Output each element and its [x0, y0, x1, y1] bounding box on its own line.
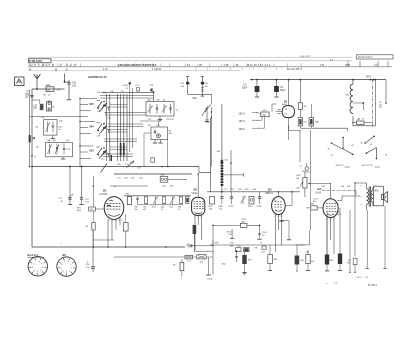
wire det down: [199, 167, 211, 192]
svg-text:C85: C85: [254, 248, 259, 250]
wire B3 top tap: [285, 205, 292, 207]
tube B1 stems: [107, 219, 109, 247]
wire osc link: [140, 121, 159, 127]
capacitor C1 50uF: [276, 80, 278, 86]
svg-text:1: 1: [194, 217, 196, 219]
svg-text:C29: C29: [296, 188, 301, 190]
svg-text:2: 2: [326, 219, 328, 221]
wire drop x367: [366, 210, 368, 268]
svg-text:12: 12: [126, 88, 129, 90]
svg-text:C78: C78: [149, 85, 154, 87]
svg-text:C90: C90: [86, 264, 91, 266]
resistor R48: [353, 258, 357, 264]
wire stage rail: [79, 99, 81, 167]
trimmer C38: [48, 145, 52, 155]
choke L70 3H: [32, 99, 40, 101]
svg-text:SK3 1/2 TF: SK3 1/2 TF: [362, 165, 374, 167]
resistor R9: [186, 197, 189, 204]
svg-text:3: 3: [37, 271, 39, 273]
coil box S60: [44, 120, 58, 136]
capacitor C71: [69, 167, 71, 198]
capacitor C46: [201, 77, 203, 95]
ferrite rod antenna S30: [221, 104, 223, 192]
coil box S60 ground: [52, 135, 54, 138]
revision flag box: [15, 77, 25, 86]
trimmer C41: [156, 104, 158, 114]
wire det bus: [207, 191, 300, 193]
wire IF bottoms: [138, 204, 184, 206]
svg-text:40: 40: [328, 149, 330, 151]
svg-text:OA: OA: [47, 88, 51, 91]
svg-text:40k: 40k: [209, 209, 213, 211]
svg-text:C41: C41: [97, 111, 102, 113]
wire stage feed 2: [80, 122, 95, 134]
wire SK2 drops: [211, 107, 213, 167]
svg-text:S30: S30: [217, 151, 221, 153]
wire af line: [309, 183, 331, 185]
resistor R36: [309, 118, 314, 126]
wire det bottom bus: [210, 244, 305, 246]
svg-text:C46: C46: [107, 118, 112, 120]
svg-text:C22 13k: C22 13k: [166, 119, 173, 121]
svg-text:1: 1: [71, 267, 73, 269]
title block row1 line: [51, 60, 352, 62]
svg-text:9: 9: [41, 264, 43, 266]
wire down left: [199, 118, 211, 173]
svg-text:B1: B1: [103, 189, 107, 193]
switch SK1 wafer: [331, 143, 341, 149]
wire grid drop: [92, 176, 94, 207]
svg-text:C20: C20: [156, 100, 161, 102]
svg-text:× ×: × ×: [334, 282, 338, 285]
resistor R45: [295, 256, 300, 265]
svg-text:R2: R2: [44, 95, 47, 97]
capacitor C162: [231, 192, 233, 197]
svg-text:4: 4: [361, 186, 362, 188]
svg-text:C51: C51: [101, 159, 106, 161]
svg-text:S45: S45: [89, 103, 94, 106]
wire B3 cathode jog: [281, 220, 289, 222]
svg-text:C80: C80: [253, 189, 258, 191]
node SK6: [305, 171, 310, 173]
svg-text:10n: 10n: [313, 201, 316, 203]
potentiometer R30: [303, 178, 307, 189]
wire bus segment: [110, 185, 148, 187]
wire stage feed 3: [80, 146, 93, 159]
svg-text:SK5: SK5: [366, 76, 371, 79]
svg-text:C79: C79: [238, 189, 243, 191]
wire top bus: [250, 79, 386, 81]
resistor R10 screen: [193, 225, 197, 234]
svg-text:UL41: UL41: [316, 191, 322, 194]
svg-text:R4: R4: [304, 106, 308, 108]
wire rail2: [29, 90, 31, 167]
svg-text:4: 4: [62, 270, 64, 272]
svg-text:519: 519: [181, 86, 185, 88]
svg-text:40k: 40k: [169, 133, 172, 135]
wire ladder bar extension: [311, 127, 347, 129]
svg-text:C162: C162: [229, 206, 235, 208]
svg-text:UF41: UF41: [192, 192, 199, 195]
speaker driver: [382, 195, 385, 200]
wire drop x327: [326, 212, 328, 255]
tuning gang cross wires: [100, 95, 154, 97]
svg-text:6: 6: [61, 264, 63, 266]
svg-text:1: 1: [109, 220, 111, 222]
svg-text:L40: L40: [225, 160, 229, 162]
svg-text:C1: C1: [280, 86, 284, 89]
wire stage feed 1: [80, 99, 97, 111]
svg-text:6: 6: [33, 264, 35, 266]
IF box ground: [159, 116, 161, 119]
svg-text:50: 50: [262, 235, 265, 237]
resistor R6: [92, 223, 95, 231]
connector P2: [160, 177, 168, 183]
svg-text:C55: C55: [97, 92, 102, 94]
mains dash-dot line: [371, 80, 373, 128]
svg-text:R43: R43: [248, 260, 253, 262]
trimmer C39: [55, 145, 59, 155]
svg-text:SK9: SK9: [215, 243, 220, 245]
svg-text:B 772L7: B 772L7: [368, 284, 378, 287]
svg-text:15 8 17 12 2 7: 15 8 17 12 2 7: [358, 57, 373, 59]
svg-text:3: 3: [115, 220, 117, 222]
svg-text:2: 2: [112, 220, 114, 222]
svg-text:152 V: 152 V: [239, 120, 246, 123]
tuning indicator arrow 2: [127, 161, 134, 167]
svg-text:C24: C24: [156, 125, 161, 127]
capacitor C2 50uF: [256, 80, 258, 86]
svg-text:n47: n47: [143, 209, 147, 211]
resistor R156: [231, 229, 233, 238]
resistor R46: [325, 255, 329, 265]
osc box S62: [46, 142, 73, 156]
svg-text:C38: C38: [47, 140, 52, 142]
svg-text:50p: 50p: [135, 209, 139, 211]
svg-text:UCH42: UCH42: [100, 193, 109, 196]
svg-text:R: R: [300, 166, 302, 168]
title block row2 underline: [28, 66, 392, 68]
svg-text:1k: 1k: [48, 95, 50, 97]
svg-text:2n: 2n: [161, 209, 163, 211]
svg-text:C59: C59: [137, 168, 142, 170]
shield bar on rail: [29, 135, 31, 142]
capacitor C64: [162, 197, 165, 204]
tube B4 stems: [326, 217, 328, 258]
capacitor C66b: [179, 197, 182, 204]
wire socket feed: [93, 239, 114, 241]
svg-text:C7: C7: [358, 119, 361, 121]
svg-text:2: 2: [275, 216, 277, 218]
svg-text:C68: C68: [117, 164, 122, 166]
wire mains bottom: [353, 125, 376, 127]
svg-text:L62: L62: [66, 140, 70, 142]
svg-text:4: 4: [34, 270, 36, 272]
capacitor C60: [137, 196, 139, 198]
svg-text:C84: C84: [306, 252, 311, 254]
svg-text:C77: C77: [224, 189, 229, 191]
svg-text:S46: S46: [147, 100, 151, 102]
wire drop R32: [310, 130, 312, 206]
svg-text:B3: B3: [268, 188, 272, 192]
svg-text:1k: 1k: [108, 132, 110, 134]
capacitor C31 1n5: [65, 81, 70, 83]
svg-text:UBC41: UBC41: [265, 192, 273, 195]
svg-text:SK2: SK2: [192, 97, 197, 100]
title block type box top right: [357, 55, 394, 59]
svg-text:TV: TV: [262, 113, 266, 117]
wire B4 grid return: [309, 230, 311, 245]
svg-text:3: 3: [66, 272, 68, 274]
resistor R8 cathode: [124, 223, 129, 232]
svg-text:R16: R16: [311, 261, 316, 263]
tube B2 envelope: [192, 197, 205, 215]
capacitor C45: [187, 77, 189, 95]
svg-text:7: 7: [333, 219, 335, 221]
svg-text:C35: C35: [59, 121, 64, 123]
svg-text:C23: C23: [261, 251, 266, 253]
tuning gang wire bundle: [106, 94, 108, 161]
node det junction: [221, 191, 223, 193]
svg-text:R19: R19: [231, 189, 236, 191]
wire left rail: [31, 89, 33, 247]
svg-text:1M: 1M: [90, 209, 93, 211]
svg-text:S65: S65: [130, 163, 134, 165]
capacitor C160: [221, 192, 223, 197]
svg-text:C75: C75: [117, 178, 122, 180]
svg-text:5000: 5000: [337, 214, 342, 216]
svg-text:C49: C49: [97, 136, 102, 138]
svg-text:8p: 8p: [105, 113, 108, 115]
svg-text:L70: L70: [33, 105, 38, 107]
tube B4 envelope: [323, 199, 338, 218]
svg-text:4 2: 4 2: [330, 59, 334, 61]
trimmer S42: [170, 197, 175, 205]
wire heater bus 2: [114, 256, 185, 258]
svg-text:5kΩ: 5kΩ: [222, 264, 226, 266]
resistor R37 4R7: [180, 262, 184, 270]
transformer tap wire: [353, 102, 363, 104]
svg-text:3: 3: [198, 217, 200, 219]
power ladder bottom bar: [299, 126, 301, 128]
resistor R47: [338, 254, 342, 265]
trimmer C43: [170, 104, 172, 114]
junction box on AGC bus: [151, 158, 155, 162]
output transformer S51 primary: [367, 189, 369, 193]
oscillator ground leads: [154, 140, 156, 143]
resistor R35: [298, 118, 302, 126]
title block right cells: [347, 61, 349, 67]
svg-text:9: 9: [70, 264, 72, 266]
svg-text:C83: C83: [230, 243, 235, 245]
svg-text:C2: C2: [244, 84, 248, 87]
svg-text:B.LLIG.T.B. P: B.LLIG.T.B. P: [287, 68, 302, 71]
svg-text:4n7: 4n7: [219, 209, 223, 211]
tube B3 envelope: [272, 197, 286, 215]
svg-text:44: 44: [361, 143, 363, 145]
svg-text:4: 4: [278, 216, 280, 218]
resistor R40 mains: [357, 121, 365, 124]
trimmer det: [241, 196, 246, 204]
svg-text:220: 220: [206, 122, 210, 124]
svg-text:1n: 1n: [260, 243, 262, 245]
trimmer C42: [163, 104, 165, 114]
svg-text:R12: R12: [162, 186, 167, 188]
capacitor C30 2n on rail: [30, 95, 33, 97]
svg-text:4p: 4p: [163, 100, 166, 102]
svg-text:100k: 100k: [77, 210, 81, 212]
coil L71 input: [47, 102, 52, 112]
resistor R27: [262, 246, 266, 249]
svg-text:5: 5: [361, 197, 362, 199]
svg-text:R14: R14: [124, 178, 129, 180]
dipole antenna arrow: [64, 74, 66, 82]
svg-text:4: 4: [330, 219, 332, 221]
tuning indicator arrow: [101, 164, 108, 173]
output transformer core: [368, 187, 370, 207]
wire bus above tubes: [114, 173, 192, 175]
svg-text:5: 5: [122, 220, 124, 222]
svg-text:L60: L60: [41, 117, 45, 119]
svg-text:S42: S42: [170, 207, 174, 209]
resistor R24: [249, 197, 254, 205]
svg-text:C33: C33: [57, 90, 62, 92]
trimmer C40: [149, 104, 151, 114]
svg-text:30k: 30k: [347, 262, 350, 264]
mains wire right: [375, 80, 377, 126]
tube B2 stems: [194, 215, 196, 252]
svg-text:4R: 4R: [173, 265, 176, 267]
svg-text:470: 470: [86, 267, 90, 269]
voltage selector plug: [261, 112, 269, 117]
svg-text:R1: R1: [52, 107, 56, 109]
svg-text:1M: 1M: [296, 178, 299, 180]
capacitor C166: [259, 225, 261, 238]
tube B3 stems: [275, 214, 277, 252]
capacitor C82: [236, 251, 238, 262]
svg-text:L61: L61: [35, 127, 39, 129]
svg-text:2n2: 2n2: [85, 201, 89, 203]
capacitor C164: [259, 192, 261, 197]
svg-text:B: B: [35, 157, 37, 159]
svg-text:2M: 2M: [170, 186, 173, 188]
svg-text:GR1: GR1: [46, 84, 52, 87]
svg-text:50μF: 50μF: [280, 90, 286, 92]
svg-text:SK7: SK7: [263, 110, 268, 112]
resistor R38: [185, 255, 193, 259]
resistor R5 1M grid: [89, 207, 96, 211]
osc box ground: [62, 157, 64, 159]
cross mark: [33, 137, 35, 139]
oscillator trimmer: [154, 130, 156, 135]
svg-text:+: +: [181, 278, 183, 281]
svg-text:R30: R30: [297, 175, 302, 177]
svg-text:40p: 40p: [53, 140, 57, 142]
node rail B: [31, 155, 33, 157]
svg-text:R32: R32: [322, 186, 327, 188]
svg-text:4 6 4: 4 6 4: [357, 277, 361, 279]
trimmer S41: [153, 197, 158, 205]
resistor R42: [244, 248, 250, 252]
switch SK3 wafer: [365, 136, 374, 143]
svg-text:S43: S43: [89, 150, 94, 153]
svg-text:S41: S41: [152, 207, 156, 209]
antenna A1: [34, 74, 41, 79]
ground heater: [206, 274, 211, 276]
tube B1 envelope: [104, 197, 124, 220]
svg-text:7: 7: [35, 261, 37, 263]
svg-text:R44: R44: [274, 259, 279, 261]
wire SK2 link: [188, 93, 212, 95]
svg-text:B5: B5: [284, 100, 288, 103]
wire B4 plate to transformer: [337, 196, 360, 201]
svg-text:7: 7: [64, 262, 66, 264]
wire IF feed down: [144, 133, 168, 167]
svg-text:a: a: [61, 243, 63, 245]
svg-text:R31: R31: [311, 204, 316, 206]
gang extra verticals: [129, 92, 131, 152]
wire heater drop: [212, 240, 214, 275]
svg-text:SK1 1/2: SK1 1/2: [336, 165, 345, 167]
svg-text:42: 42: [352, 145, 354, 147]
title block ruler band top line: [28, 56, 352, 58]
svg-text:1n: 1n: [178, 209, 180, 211]
mains autotransformer S50: [352, 80, 354, 84]
svg-text:R20: R20: [245, 189, 250, 191]
svg-text:C37: C37: [67, 149, 72, 151]
svg-text:C28: C28: [341, 186, 346, 188]
resistor R44: [268, 255, 273, 264]
capacitor C62: [144, 197, 147, 204]
wire ferrite branch: [222, 174, 244, 176]
wire left link: [30, 116, 88, 118]
IF transformer S40: [127, 197, 131, 205]
tube B3 electrodes: [275, 201, 277, 203]
svg-text:a.c: a.c: [114, 186, 117, 188]
svg-text:3H: 3H: [34, 108, 37, 110]
svg-text:S47: S47: [148, 125, 152, 127]
svg-text:A4R: A4R: [230, 245, 234, 248]
svg-text:C164: C164: [257, 206, 263, 208]
gang section bars: [120, 143, 122, 156]
speaker frame: [374, 186, 384, 206]
svg-text:4k7: 4k7: [36, 147, 40, 149]
node top feed: [153, 91, 155, 93]
svg-text:2n: 2n: [26, 97, 29, 99]
title block left code box: [29, 59, 52, 63]
capacitor C37: [63, 144, 65, 155]
wire heater bus 1: [32, 246, 185, 248]
capacitor C36 1n: [52, 122, 54, 133]
wire det drop: [212, 225, 214, 246]
socket diagram B1-B4: [28, 257, 47, 276]
wire transformer top: [331, 183, 367, 191]
svg-text:B2: B2: [194, 188, 198, 192]
resistor R22: [210, 197, 215, 205]
svg-text:H9X25R-00-12: H9X25R-00-12: [88, 75, 107, 79]
svg-text:5: 5: [201, 217, 203, 219]
svg-text:KTB.1234: KTB.1234: [29, 59, 42, 63]
svg-text:C77: C77: [136, 85, 141, 87]
resistor R41: [236, 248, 242, 252]
dash-dot AVC line: [322, 190, 356, 192]
svg-text:R6: R6: [85, 226, 88, 228]
wire band line: [230, 150, 232, 192]
oscillator coil circle: [157, 134, 161, 138]
svg-text:6: 6: [361, 204, 362, 206]
tube B2 electrodes: [194, 201, 196, 203]
svg-text:1n5: 1n5: [72, 84, 77, 87]
